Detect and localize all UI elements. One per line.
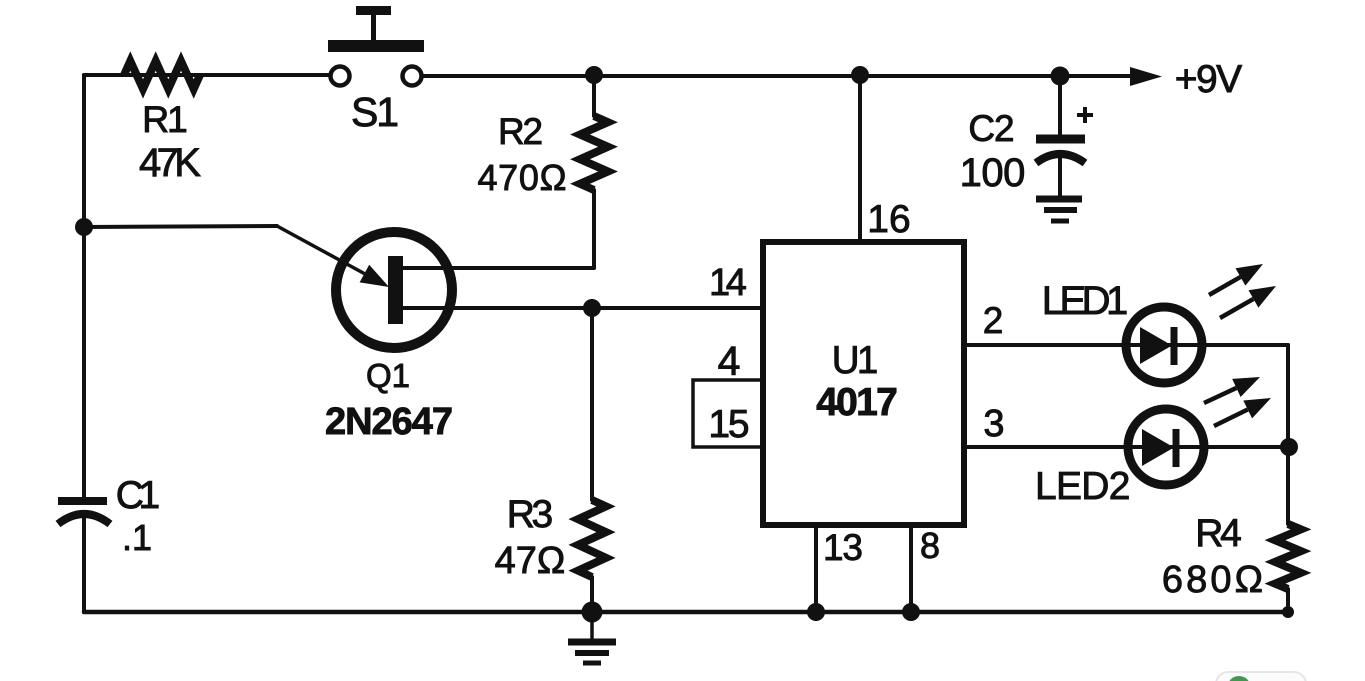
svg-text:+9V: +9V	[1175, 58, 1242, 101]
svg-text:680Ω: 680Ω	[1162, 559, 1263, 601]
svg-text:LED1: LED1	[1042, 279, 1128, 323]
svg-text:8: 8	[920, 525, 940, 566]
svg-text:C1: C1	[116, 474, 161, 517]
svg-text:14: 14	[709, 262, 747, 304]
svg-text:U1: U1	[832, 339, 879, 382]
svg-text:R3: R3	[507, 493, 553, 536]
svg-text:47K: 47K	[139, 141, 201, 185]
svg-text:C2: C2	[968, 108, 1014, 149]
svg-text:LED2: LED2	[1035, 465, 1131, 508]
svg-text:2N2647: 2N2647	[325, 401, 453, 443]
svg-text:16: 16	[867, 198, 910, 241]
svg-text:470Ω: 470Ω	[477, 157, 566, 198]
svg-text:4: 4	[718, 338, 741, 384]
svg-text:3: 3	[983, 403, 1004, 445]
svg-text:4017: 4017	[816, 381, 898, 424]
svg-text:100: 100	[960, 151, 1026, 195]
svg-text:2: 2	[983, 300, 1004, 341]
svg-text:13: 13	[823, 527, 863, 568]
svg-text:R1: R1	[142, 98, 188, 140]
svg-text:S1: S1	[351, 89, 399, 135]
svg-text:15: 15	[708, 403, 749, 446]
svg-text:R2: R2	[498, 111, 543, 152]
svg-text:R4: R4	[1195, 512, 1242, 555]
svg-text:47Ω: 47Ω	[495, 540, 566, 582]
svg-text:Q1: Q1	[366, 357, 410, 394]
svg-text:.1: .1	[122, 517, 152, 558]
